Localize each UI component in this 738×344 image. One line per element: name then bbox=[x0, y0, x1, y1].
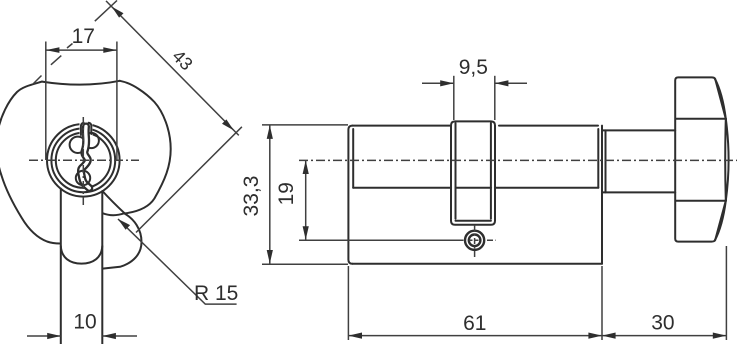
dim 9,5 line right bbox=[495, 82, 527, 84]
dim 9,5 extension right bbox=[494, 76, 496, 120]
body top edge left of cam bbox=[352, 125, 451, 127]
right lobe of knob bbox=[120, 81, 171, 214]
dim 33,3 extension top bbox=[262, 124, 348, 126]
keyway: right bump circle bbox=[84, 133, 99, 148]
profile stem left edge bbox=[60, 189, 62, 344]
keyway: bottom hook circle bbox=[76, 171, 90, 185]
neck groove line bbox=[605, 130, 607, 192]
bottom-right small lobe bbox=[103, 214, 142, 269]
body left face bbox=[348, 126, 352, 264]
body right chamfer line bbox=[597, 129, 599, 188]
knob side right outer bulge bbox=[726, 119, 729, 201]
neck bottom line bbox=[602, 191, 675, 193]
round/flat boundary line left of cam bbox=[353, 187, 451, 189]
cam screw circle inner bbox=[469, 235, 481, 247]
arrow 30 right bbox=[713, 333, 727, 339]
arrow R15 bbox=[118, 219, 130, 230]
dim 61/30 extension middle bbox=[601, 266, 603, 340]
keyway slot ribbon (black outline) bbox=[81, 127, 89, 189]
cam outer outline bbox=[451, 121, 495, 224]
knob side bottom-right slant bbox=[715, 201, 726, 241]
screw circle horizontal centerline right tick bbox=[487, 239, 496, 241]
keyway slot top clearing bbox=[80, 121, 93, 136]
arrow 9,5 right bbox=[495, 80, 509, 86]
arrow 10 left bbox=[47, 333, 61, 339]
keyway top shoulder left edge bbox=[81, 123, 84, 135]
round/flat boundary line through cam bbox=[456, 187, 492, 189]
keyway top shoulder right edge bbox=[89, 123, 92, 134]
body top edge right of cam bbox=[499, 125, 598, 127]
arrow 30 left bbox=[602, 333, 616, 339]
dim 61 extension left bbox=[347, 266, 349, 340]
body right face bbox=[601, 126, 603, 264]
knob bottom lobe cap behind stem bbox=[61, 246, 103, 264]
svg-text:43: 43 bbox=[168, 46, 196, 74]
svg-text:19: 19 bbox=[275, 182, 298, 205]
arrow 9,5 left bbox=[440, 80, 454, 86]
arrow 43 bottom bbox=[222, 119, 234, 130]
cam inner left line bbox=[455, 123, 457, 219]
dim 43 extension line 1 (dash-dot pieces) bbox=[34, 1, 118, 84]
svg-text:10: 10 bbox=[73, 310, 96, 333]
arrow 10 right bbox=[102, 333, 116, 339]
arrow 61 right bbox=[588, 333, 602, 339]
dim 19 line bbox=[305, 160, 307, 239]
arrow 33,3 top bbox=[267, 125, 273, 139]
dim R15 leader bbox=[118, 219, 237, 304]
svg-text:R 15: R 15 bbox=[194, 282, 238, 305]
screw circle vertical centerline bbox=[474, 225, 476, 257]
top saddle arc of knob bbox=[42, 81, 120, 85]
round/flat boundary line right of cam bbox=[495, 187, 598, 189]
body left chamfer line bbox=[352, 129, 354, 188]
arrow 19 top bbox=[303, 160, 309, 174]
knob side top-right slant bbox=[715, 79, 726, 119]
body bottom edge bbox=[352, 263, 602, 265]
dim 33,3 extension bottom bbox=[262, 263, 348, 265]
dim 17 line bbox=[46, 49, 117, 51]
arrow 33,3 bottom bbox=[267, 250, 273, 264]
dim 30 line bbox=[602, 335, 726, 337]
svg-text:30: 30 bbox=[651, 312, 674, 335]
cam inner right line bbox=[490, 123, 492, 219]
cam inner bottom line bbox=[456, 220, 491, 222]
dimension texts bbox=[72, 25, 675, 335]
svg-text:9,5: 9,5 bbox=[459, 56, 488, 79]
arrow 17 right bbox=[103, 47, 117, 53]
cylinder face inner circle bbox=[56, 133, 111, 188]
profile stem right edge bbox=[101, 191, 103, 344]
dim 43 extension line 2 bbox=[136, 127, 242, 233]
knob front outline bbox=[0, 81, 171, 269]
notch curve upper (stem to notch) bbox=[102, 191, 124, 213]
dim 61 line bbox=[348, 335, 602, 337]
svg-text:61: 61 bbox=[463, 312, 486, 335]
dim 17 extension right bbox=[116, 42, 118, 161]
front view vertical centerline bbox=[82, 117, 84, 208]
notch curve lower (stem to notch) bbox=[103, 213, 125, 215]
dim 9,5 extension left bbox=[453, 76, 455, 120]
screw circle horizontal centerline tick bbox=[469, 239, 481, 241]
dim 10 line right bbox=[102, 335, 137, 337]
knob side outline bbox=[675, 77, 726, 241]
svg-text:33,3: 33,3 bbox=[240, 176, 263, 217]
keyway: left bump circle bbox=[70, 137, 86, 153]
dim 10 line left bbox=[27, 335, 61, 337]
arrow 43 top bbox=[112, 7, 124, 18]
svg-text:17: 17 bbox=[72, 25, 95, 48]
neck top line bbox=[602, 129, 675, 131]
dim 30 extension right bbox=[725, 246, 727, 340]
arrow 19 bottom bbox=[303, 226, 309, 240]
side view horizontal centerline bbox=[299, 159, 737, 161]
knob side right inner arc bbox=[724, 119, 727, 201]
keyway slot ribbon (white core) bbox=[81, 127, 89, 189]
dim 9,5 line left bbox=[422, 82, 454, 84]
dim 19 extension bottom (to screw circle) bbox=[299, 239, 464, 241]
left lobe of knob bbox=[0, 82, 60, 244]
cylinder face outer circle bbox=[47, 124, 120, 197]
dim 17 extension left bbox=[45, 42, 47, 161]
arrow 61 left bbox=[348, 333, 362, 339]
cam screw circle outer bbox=[465, 231, 484, 250]
dim 33,3 line bbox=[269, 125, 271, 263]
dim 43 line bbox=[106, 1, 239, 136]
cylinder face middle circle bbox=[51, 128, 115, 192]
front view horizontal centerline bbox=[29, 159, 139, 161]
arrow 17 left bbox=[46, 47, 60, 53]
